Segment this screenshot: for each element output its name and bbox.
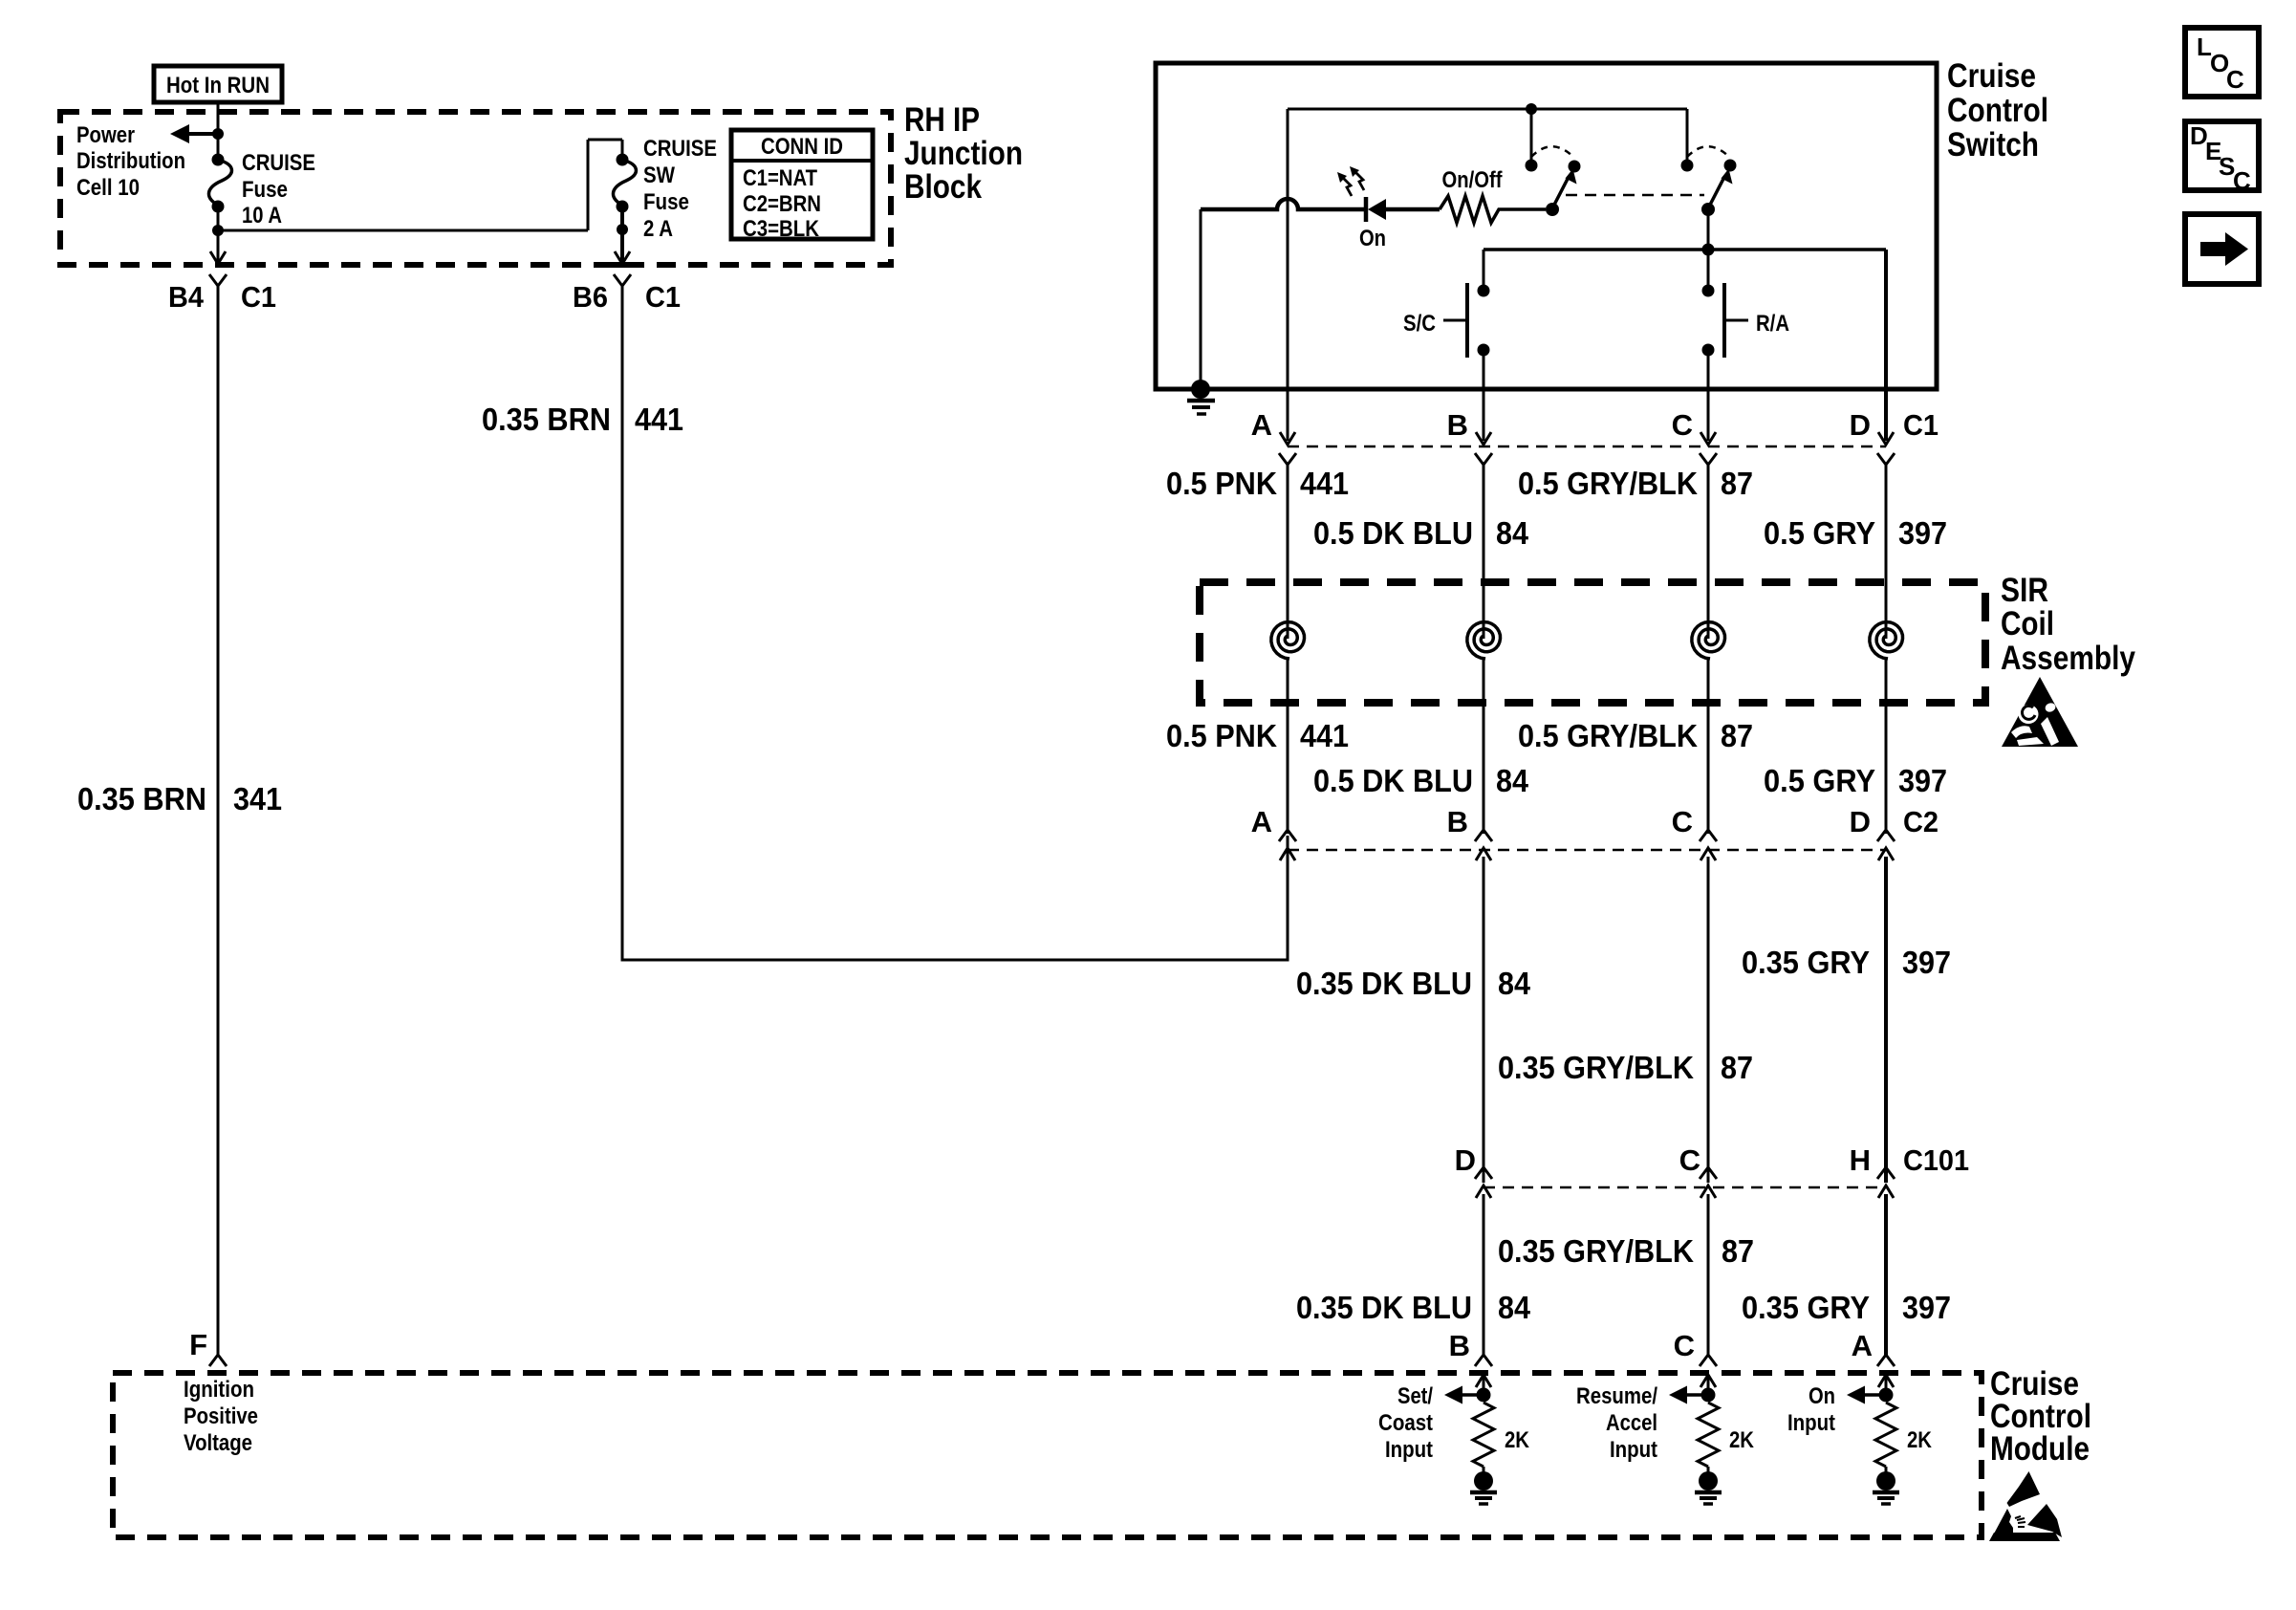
arrow input direction	[1685, 1393, 1708, 1397]
resistor 2K	[1473, 1403, 1494, 1467]
SIR coil	[1271, 622, 1305, 659]
svg-text:0.5 GRY: 0.5 GRY	[1764, 763, 1875, 798]
conn id table	[731, 130, 873, 239]
svg-text:B: B	[1449, 1329, 1470, 1362]
svg-text:0.35 GRY/BLK: 0.35 GRY/BLK	[1498, 1050, 1694, 1085]
svg-text:Resume/: Resume/	[1576, 1383, 1657, 1409]
ground in module	[1707, 1467, 1710, 1474]
pivot node gang	[1701, 203, 1715, 216]
svg-text:397: 397	[1898, 763, 1947, 798]
svg-text:0.35 GRY/BLK: 0.35 GRY/BLK	[1498, 1233, 1694, 1269]
resistor 2K	[1698, 1403, 1719, 1467]
svg-text:Coast: Coast	[1378, 1410, 1433, 1436]
ground symbol in switch	[1191, 380, 1210, 399]
svg-text:Set/: Set/	[1397, 1383, 1433, 1409]
svg-text:B: B	[1447, 408, 1468, 442]
connector pin arrow	[1878, 432, 1894, 445]
svg-text:C: C	[1679, 1143, 1700, 1177]
node feed junction	[212, 225, 224, 236]
svg-text:C1: C1	[241, 280, 276, 314]
wire 341 BRN from B4 to module pin F	[217, 286, 220, 1356]
svg-text:84: 84	[1498, 1290, 1531, 1325]
svg-text:On: On	[1809, 1383, 1835, 1409]
wire B6 pin drop	[617, 224, 628, 235]
svg-text:2K: 2K	[1505, 1427, 1530, 1453]
svg-text:0.35 BRN: 0.35 BRN	[482, 402, 611, 437]
svg-text:Fuse: Fuse	[643, 189, 689, 215]
node input junction	[1701, 1388, 1716, 1403]
svg-text:Cruise: Cruise	[1947, 57, 2036, 95]
Cruise Control Module dashed box	[113, 1373, 1982, 1537]
svg-text:On/Off: On/Off	[1442, 167, 1504, 193]
border dash under B6 arrow	[613, 262, 633, 268]
arrow to Power Distribution Cell 10	[187, 132, 218, 136]
svg-text:D: D	[1850, 408, 1871, 442]
svg-text:441: 441	[1300, 466, 1349, 501]
svg-text:397: 397	[1902, 1290, 1951, 1325]
node junction to power distribution	[212, 128, 224, 140]
module pin connector	[1475, 1355, 1492, 1366]
wire B to SIR coil	[1483, 465, 1485, 639]
svg-text:84: 84	[1496, 515, 1529, 551]
svg-text:0.35 GRY: 0.35 GRY	[1742, 1290, 1870, 1325]
svg-text:Ignition: Ignition	[184, 1377, 254, 1403]
svg-text:S/C: S/C	[1403, 311, 1436, 337]
wire A vertical inside switch	[1287, 109, 1289, 441]
connector pin arrow	[1700, 1167, 1717, 1179]
svg-text:D: D	[1850, 805, 1871, 838]
svg-text:397: 397	[1898, 515, 1947, 551]
svg-text:Accel: Accel	[1606, 1410, 1657, 1436]
SIR Coil Assembly dashed box	[1200, 582, 1985, 703]
node input junction	[1477, 1388, 1491, 1403]
svg-text:Voltage: Voltage	[184, 1430, 252, 1456]
RH IP Junction Block dashed box	[60, 112, 891, 265]
node top bus junction	[1526, 103, 1537, 115]
svg-text:C1=NAT: C1=NAT	[743, 165, 817, 191]
svg-text:A: A	[1251, 805, 1272, 838]
svg-text:B4: B4	[168, 280, 205, 314]
svg-text:CRUISE: CRUISE	[643, 136, 717, 162]
svg-text:C3=BLK: C3=BLK	[743, 216, 820, 242]
svg-text:0.5 GRY/BLK: 0.5 GRY/BLK	[1518, 718, 1698, 753]
svg-text:Fuse: Fuse	[242, 177, 288, 203]
svg-text:D: D	[1455, 1143, 1476, 1177]
wire B4 pin drop	[217, 230, 220, 264]
wire 441 BRN from B6 down and right to C2 pin A	[622, 286, 1288, 960]
ground in module	[1483, 1467, 1485, 1474]
svg-text:Switch: Switch	[1947, 126, 2039, 163]
connector pin arrow	[1280, 432, 1295, 445]
svg-text:0.35 DK BLU: 0.35 DK BLU	[1296, 1290, 1472, 1325]
svg-text:SW: SW	[643, 163, 675, 188]
on/off switch left contacts	[1526, 160, 1538, 172]
svg-text:RH IP: RH IP	[904, 101, 980, 139]
wire from Hot In RUN down to fuse	[217, 102, 220, 161]
wire B C2 to C101	[1483, 857, 1485, 1183]
fuse CRUISE Fuse 10 A	[212, 154, 225, 166]
wire drop to R/A side contact	[1686, 109, 1689, 161]
svg-text:SIR: SIR	[2001, 572, 2048, 609]
svg-text:B: B	[1447, 805, 1468, 838]
svg-text:C101: C101	[1903, 1143, 1969, 1177]
gang switch arm	[1708, 179, 1723, 208]
switch S/C	[1478, 285, 1490, 297]
svg-text:87: 87	[1721, 718, 1753, 753]
svg-text:CONN ID: CONN ID	[761, 134, 843, 160]
svg-text:0.5 GRY: 0.5 GRY	[1764, 515, 1875, 551]
svg-text:2 A: 2 A	[643, 216, 673, 242]
svg-text:0.35 GRY: 0.35 GRY	[1742, 945, 1870, 980]
node gang to bus	[1707, 209, 1710, 286]
svg-text:87: 87	[1722, 1233, 1754, 1269]
svg-text:341: 341	[233, 781, 282, 816]
wire bus to S/C	[1483, 250, 1485, 286]
wire D C2 to C101	[1884, 857, 1888, 1183]
switch R/A	[1702, 285, 1715, 297]
fuse CRUISE SW Fuse 2 A	[617, 154, 629, 166]
svg-text:Assembly: Assembly	[2001, 640, 2135, 677]
module pin connector	[1877, 1355, 1895, 1366]
svg-text:CRUISE: CRUISE	[242, 150, 315, 176]
svg-text:2K: 2K	[1907, 1427, 1933, 1453]
arrow input direction	[1461, 1393, 1484, 1397]
arrow input direction	[1863, 1393, 1886, 1397]
svg-text:C: C	[1672, 805, 1693, 838]
svg-text:Coil: Coil	[2001, 605, 2054, 642]
connector pin arrow	[1877, 830, 1895, 841]
connector C1 forks below junction block	[209, 274, 227, 286]
wire C C2 to C101	[1707, 857, 1710, 1183]
svg-text:C2=BRN: C2=BRN	[743, 191, 821, 217]
connector pin arrow	[1279, 830, 1296, 841]
svg-text:2K: 2K	[1729, 1427, 1755, 1453]
wire drop to on/off contact	[1530, 109, 1533, 161]
right gang contacts	[1681, 160, 1694, 172]
svg-text:84: 84	[1496, 763, 1529, 798]
svg-text:Input: Input	[1610, 1437, 1657, 1463]
connector pin arrow	[1475, 1167, 1492, 1179]
LED indicator diode	[1364, 197, 1369, 222]
wire fuse output to junction	[217, 207, 220, 235]
pivot node on/off	[1546, 203, 1559, 216]
SIR coil	[1870, 622, 1903, 659]
svg-text:C: C	[2233, 166, 2251, 195]
connector C1 dashed line	[1288, 446, 1886, 448]
svg-text:Distribution: Distribution	[76, 148, 185, 174]
dashed arc on/off switch	[1531, 146, 1574, 158]
wire R/A to pin C	[1707, 350, 1710, 441]
svg-text:C: C	[2226, 65, 2244, 94]
DESC icon box	[2185, 121, 2259, 190]
svg-text:441: 441	[635, 402, 683, 437]
resistor 2K	[1875, 1403, 1896, 1467]
svg-text:C1: C1	[1903, 408, 1939, 442]
wire B C101 to module	[1483, 1194, 1485, 1356]
wire S/C R/A bus	[1484, 248, 1886, 251]
connector C2 dashed line	[1288, 849, 1886, 852]
svg-text:On: On	[1359, 226, 1386, 251]
label box Hot In RUN	[154, 66, 282, 102]
svg-text:A: A	[1852, 1329, 1873, 1362]
connector pin arrow	[1476, 432, 1491, 445]
dashed arc gang switch	[1687, 146, 1730, 158]
connector C101 dashed line	[1484, 1186, 1886, 1189]
svg-text:Control: Control	[1947, 92, 2048, 129]
SIR coil	[1692, 622, 1725, 659]
SIR coil	[1467, 622, 1501, 659]
LED light arrows	[1342, 177, 1352, 196]
module pin connector	[1700, 1355, 1717, 1366]
wire C to SIR coil	[1707, 465, 1710, 639]
svg-text:0.35 BRN: 0.35 BRN	[77, 781, 206, 816]
svg-text:H: H	[1850, 1143, 1871, 1177]
svg-text:Block: Block	[904, 168, 982, 206]
svg-text:Power: Power	[76, 122, 135, 148]
svg-text:Cell 10: Cell 10	[76, 175, 140, 201]
svg-text:F: F	[189, 1328, 207, 1361]
svg-text:Module: Module	[1990, 1430, 2090, 1468]
svg-text:Junction: Junction	[904, 135, 1023, 172]
wire ground leg	[1200, 209, 1202, 389]
wire D to SIR coil	[1885, 465, 1888, 639]
resistor On/Off	[1440, 196, 1546, 223]
svg-text:0.5 DK BLU: 0.5 DK BLU	[1313, 515, 1473, 551]
wire C C101 to module	[1707, 1194, 1710, 1356]
svg-text:C: C	[1672, 408, 1693, 442]
svg-text:C: C	[1674, 1329, 1695, 1362]
svg-text:A: A	[1251, 408, 1272, 442]
svg-text:87: 87	[1721, 466, 1753, 501]
wire top bus inside switch	[1288, 108, 1687, 111]
wire LED branch with hop over wire A	[1201, 199, 1364, 209]
svg-text:Positive: Positive	[184, 1403, 258, 1429]
wire D from bus	[1884, 250, 1888, 441]
svg-text:0.5 DK BLU: 0.5 DK BLU	[1313, 763, 1473, 798]
svg-text:R/A: R/A	[1756, 311, 1789, 337]
svg-text:Input: Input	[1385, 1437, 1433, 1463]
svg-text:0.5 GRY/BLK: 0.5 GRY/BLK	[1518, 466, 1698, 501]
connector pin arrow	[1700, 830, 1717, 841]
arrow icon box	[2185, 214, 2259, 284]
Cruise Control Switch box	[1156, 63, 1937, 389]
wire S/C to pin B	[1483, 350, 1485, 441]
svg-text:0.5 PNK: 0.5 PNK	[1166, 718, 1277, 753]
svg-text:10 A: 10 A	[242, 203, 282, 228]
svg-text:0.5 PNK: 0.5 PNK	[1166, 466, 1277, 501]
SIR warning triangle	[2002, 677, 2078, 747]
svg-text:Input: Input	[1787, 1410, 1835, 1436]
LOC icon box	[2185, 28, 2259, 97]
svg-text:84: 84	[1498, 966, 1531, 1001]
svg-text:441: 441	[1300, 718, 1349, 753]
svg-text:C1: C1	[645, 280, 681, 314]
ground in module	[1885, 1467, 1888, 1474]
node input junction	[1879, 1388, 1894, 1403]
svg-text:0.35 DK BLU: 0.35 DK BLU	[1296, 966, 1472, 1001]
connector pin arrow	[1877, 1167, 1895, 1179]
connector pin arrow	[1475, 830, 1492, 841]
wire A to SIR coil	[1287, 465, 1289, 639]
dashed gang link	[1566, 194, 1704, 197]
svg-text:397: 397	[1902, 945, 1951, 980]
wire feed to CRUISE SW fuse	[218, 229, 588, 232]
connector pin arrow	[1700, 432, 1716, 445]
ESD warning triangle	[1989, 1471, 2062, 1541]
on/off switch arm	[1552, 179, 1568, 208]
svg-text:C2: C2	[1903, 805, 1939, 838]
wire D C101 to module	[1884, 1194, 1888, 1356]
svg-text:87: 87	[1721, 1050, 1753, 1085]
svg-text:Hot In RUN: Hot In RUN	[166, 73, 270, 98]
svg-text:B6: B6	[573, 280, 608, 314]
